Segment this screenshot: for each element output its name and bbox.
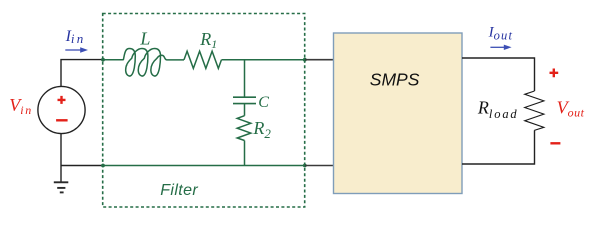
svg-text:Iout: Iout: [488, 24, 514, 42]
svg-text:R1: R1: [199, 29, 217, 51]
svg-text:Filter: Filter: [160, 182, 198, 199]
svg-text:Vin: Vin: [9, 95, 33, 117]
svg-text:L: L: [139, 29, 150, 49]
svg-text:R2: R2: [252, 118, 271, 141]
svg-text:C: C: [258, 94, 269, 111]
svg-text:Vout: Vout: [557, 97, 585, 119]
svg-text:Rload: Rload: [477, 97, 519, 120]
svg-text:Iin: Iin: [65, 28, 86, 46]
svg-text:SMPS: SMPS: [370, 69, 420, 89]
